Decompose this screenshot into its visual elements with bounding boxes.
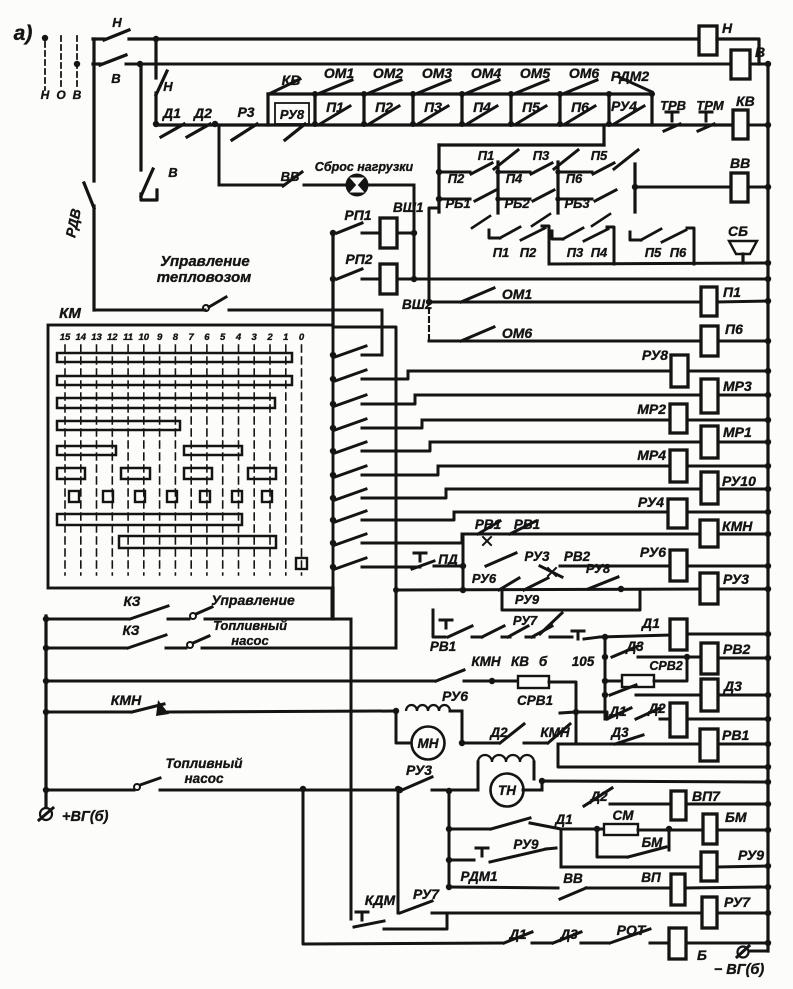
- svg-text:РУ9: РУ9: [738, 847, 764, 863]
- junction RP2: [330, 276, 336, 282]
- wire MR4 to bus: [687, 465, 768, 468]
- contact RU6 mn: [436, 670, 464, 681]
- contact P6 pair blade: [662, 230, 686, 242]
- contact D2 vp7: [584, 788, 612, 806]
- label 105: [572, 654, 595, 669]
- label D1 low: [608, 704, 626, 719]
- svg-text:ОМ1: ОМ1: [324, 65, 355, 81]
- wire vert561: [560, 829, 563, 867]
- wire KZ1 a: [46, 618, 128, 621]
- svg-text:РУ8: РУ8: [642, 347, 668, 363]
- contact P2: [471, 163, 492, 174]
- bus RP vertical: [331, 232, 334, 325]
- coil KMN: [700, 518, 753, 547]
- svg-text:ОМ2: ОМ2: [373, 65, 404, 81]
- contact П4: [467, 106, 497, 124]
- coil D1: [670, 619, 687, 650]
- junction MN left: [393, 708, 399, 714]
- wire RU3 loop: [502, 590, 640, 610]
- wire ladder row 5: [362, 442, 430, 451]
- junction B bus: [765, 940, 771, 946]
- controller column lines: [65, 345, 302, 575]
- wire vert398: [397, 789, 400, 913]
- contact KM5: [335, 442, 366, 453]
- wire RU9 to bus: [717, 866, 768, 867]
- contact P1 pair: [489, 230, 500, 238]
- contact П5: [516, 106, 546, 124]
- junction D2 bus: [765, 716, 771, 722]
- svg-text:БМ: БМ: [642, 835, 664, 850]
- contact KV low: [508, 626, 528, 637]
- svg-text:МР2: МР2: [637, 401, 666, 417]
- contact R3: [232, 124, 257, 140]
- label a): [14, 22, 33, 45]
- contact P1 diag: [494, 150, 518, 169]
- svg-text:Н: Н: [41, 88, 50, 102]
- label RU7 contact: [413, 886, 440, 902]
- label RDV: [62, 207, 84, 239]
- label P6: [566, 171, 583, 186]
- junction 767 bus: [765, 764, 771, 770]
- label R3: [237, 104, 254, 120]
- svg-text:РУ9: РУ9: [515, 592, 540, 607]
- label OM6: [502, 325, 533, 341]
- label П3: [424, 99, 442, 115]
- label P6 pair: [670, 245, 687, 260]
- label KMN left: [111, 692, 142, 708]
- contact KM3: [335, 395, 366, 406]
- wire SB row: [549, 263, 768, 264]
- bracket 2: [607, 227, 614, 264]
- bar block 1: [496, 162, 499, 213]
- junction 605 657: [602, 654, 608, 660]
- label KMN mn: [540, 725, 570, 740]
- coil P6: [701, 321, 743, 356]
- wire D1 829 a: [449, 828, 489, 831]
- contact ОМ6: [565, 80, 597, 93]
- junction KMN left: [43, 709, 49, 715]
- label ОМ6: [569, 65, 600, 81]
- wire H branch vertical: [154, 39, 157, 78]
- wire VSh1 to vert: [397, 232, 414, 235]
- svg-text:РУ7: РУ7: [413, 886, 440, 902]
- svg-text:МР1: МР1: [723, 424, 752, 440]
- wire KMN to bus: [718, 533, 768, 536]
- contact RU8 low: [588, 577, 618, 589]
- junction RU3 bus: [765, 586, 771, 592]
- junction rail RU3: [393, 587, 399, 593]
- label RU3 tn: [406, 762, 432, 778]
- wire block row2 seg3: [558, 198, 592, 201]
- contact RB3: [595, 190, 616, 201]
- wire VP row a: [449, 887, 558, 888]
- svg-text:10: 10: [139, 332, 150, 343]
- wire bottom a: [532, 942, 551, 945]
- contact ROT: [610, 929, 650, 943]
- svg-text:РУ9: РУ9: [513, 837, 539, 852]
- controller column numbers: [60, 332, 305, 343]
- junction ladder 4: [330, 425, 336, 431]
- contact ОМ4: [467, 80, 499, 93]
- svg-text:ВВ: ВВ: [730, 155, 750, 171]
- contact D2 mn: [500, 724, 524, 743]
- wire B branch hook: [141, 190, 157, 200]
- wire RU9 row a: [449, 859, 474, 862]
- label KM: [59, 305, 81, 322]
- wire block row2 seg2: [498, 198, 530, 201]
- contact P6: [593, 163, 614, 174]
- junction chain start: [153, 121, 159, 127]
- contact KZ1: [130, 606, 168, 619]
- svg-text:РУ3: РУ3: [524, 549, 550, 564]
- wire row A: [268, 92, 652, 95]
- svg-text:П5: П5: [522, 99, 540, 115]
- junction BM loop right: [666, 826, 672, 832]
- coil RV1: [700, 727, 749, 761]
- coil BM: [703, 809, 747, 844]
- junction RU6 bus: [765, 563, 771, 569]
- terminal -VG: [714, 946, 768, 978]
- label ROT: [617, 922, 647, 938]
- label П4: [473, 99, 491, 115]
- label KV low: [511, 654, 529, 669]
- junction D3 bus: [765, 692, 771, 698]
- svg-text:КЗ: КЗ: [123, 623, 140, 638]
- contact BM: [628, 847, 666, 857]
- wire KV riser: [266, 94, 269, 125]
- junction D1 bus: [765, 631, 771, 637]
- contact H branch: [156, 71, 167, 95]
- wire KDM hook: [384, 914, 447, 929]
- bracket 1: [542, 226, 549, 264]
- svg-text:12: 12: [107, 332, 118, 343]
- svg-text:П5: П5: [645, 245, 662, 260]
- svg-text:П2: П2: [375, 99, 393, 115]
- wire TN row c: [432, 789, 478, 792]
- motor TN: [491, 774, 524, 807]
- contact P1 pair blade: [500, 227, 520, 238]
- junction ladder 6: [330, 472, 336, 478]
- svg-text:РП1: РП1: [344, 207, 371, 223]
- contact П6: [565, 106, 595, 124]
- wire MR1 rung: [430, 441, 701, 444]
- wire RU7 to bus: [717, 912, 768, 915]
- contact PD thermal: [412, 553, 434, 569]
- svg-text:ВШ1: ВШ1: [393, 200, 423, 215]
- resistor SRV2: [622, 675, 654, 687]
- contact D3 bottom: [553, 932, 581, 943]
- wire RV2 rung: [638, 656, 701, 659]
- coil RU7: [702, 894, 751, 928]
- bar P4: [459, 91, 465, 127]
- contact b low: [532, 626, 552, 637]
- controller cam bars: [57, 353, 292, 548]
- contact П1: [320, 106, 350, 124]
- svg-text:5: 5: [220, 332, 226, 343]
- wire SM a: [597, 828, 604, 831]
- label TRV: [660, 98, 686, 113]
- wire vert 605: [604, 637, 607, 719]
- wire RU6 to bus: [687, 565, 768, 568]
- svg-text:Управление: Управление: [160, 253, 250, 270]
- bar P7: [606, 91, 612, 127]
- wire RV2 to bus: [718, 657, 768, 660]
- svg-text:ТРМ: ТРМ: [696, 98, 725, 113]
- bar P1: [312, 91, 318, 127]
- inductor TN: [478, 755, 534, 762]
- contact KZ2: [128, 635, 166, 648]
- wire SRV1 a: [464, 680, 518, 683]
- wire MN loop left: [396, 711, 411, 743]
- wire RU10 to bus: [718, 488, 768, 491]
- svg-text:14: 14: [76, 332, 87, 343]
- junction VSh2 right: [411, 276, 417, 282]
- svg-text:Д1: Д1: [554, 812, 572, 827]
- svg-text:насос: насос: [231, 633, 269, 648]
- label D2: [193, 105, 212, 121]
- label P1 pair: [493, 245, 510, 260]
- contact KDM blade: [354, 921, 384, 927]
- svg-text:8: 8: [173, 332, 179, 343]
- contact KM4: [335, 419, 366, 430]
- coil MR4: [637, 447, 687, 482]
- svg-text:П4: П4: [506, 171, 523, 186]
- bar P5: [508, 91, 514, 127]
- svg-text:КМ: КМ: [59, 305, 81, 322]
- wire ladder row 4: [362, 420, 422, 428]
- contact П3: [418, 106, 448, 124]
- junction KZ1: [43, 616, 49, 622]
- contact RU4 top: [614, 106, 644, 124]
- contact B branch: [141, 169, 153, 196]
- coil RU9: [701, 847, 764, 881]
- junction ladder 1: [330, 352, 336, 358]
- svg-text:МР3: МР3: [723, 378, 752, 394]
- coil KV: [733, 93, 755, 139]
- junction VV bus: [765, 184, 771, 190]
- contact KM9: [335, 534, 366, 545]
- bar RDM2: [649, 91, 655, 125]
- wire BB vertical: [218, 125, 221, 185]
- contact RDV: [84, 183, 94, 208]
- svg-text:РВ2: РВ2: [723, 641, 750, 657]
- wire D1 rung a: [472, 636, 482, 639]
- junction RV1 bus: [765, 741, 771, 747]
- wire block left edge: [437, 145, 440, 212]
- label KDM: [365, 892, 396, 908]
- wire D1 rung a2: [502, 636, 510, 639]
- label RP1: [344, 207, 371, 223]
- wire KZ1 riser: [331, 588, 334, 619]
- wire D2 rung: [660, 718, 670, 721]
- svg-text:БМ: БМ: [725, 809, 747, 825]
- label RV2: [564, 549, 591, 564]
- label SRV2: [649, 659, 682, 673]
- svg-text:Р3: Р3: [237, 104, 254, 120]
- svg-text:СРВ1: СРВ1: [517, 693, 553, 708]
- svg-text:ОМ1: ОМ1: [502, 286, 533, 302]
- svg-text:МН: МН: [418, 736, 439, 751]
- label RB2: [504, 196, 530, 211]
- junction 681: [43, 678, 49, 684]
- label BM contact: [642, 835, 664, 850]
- label P4 pair: [591, 245, 608, 260]
- svg-text:РУ3: РУ3: [723, 571, 749, 587]
- svg-text:1: 1: [283, 332, 288, 343]
- contact RU3 tn: [402, 777, 432, 790]
- wire H coil to bus: [717, 39, 759, 64]
- lamp signal: [346, 174, 369, 197]
- junction KZ2: [43, 645, 49, 651]
- wire KMN rung: [462, 533, 700, 536]
- label upravlenie teplovozom line1: [160, 253, 250, 270]
- svg-text:РУ7: РУ7: [513, 613, 538, 628]
- contact P5 pair: [630, 232, 641, 240]
- wire bottom c: [650, 942, 669, 945]
- svg-text:РУ10: РУ10: [722, 473, 756, 489]
- label D1 coil: [641, 615, 660, 631]
- wire KZ1 b: [168, 618, 189, 621]
- junction RU3 vert: [460, 587, 466, 593]
- label RB1: [445, 196, 470, 211]
- junction P6 bus: [765, 338, 771, 344]
- junction RU9 bus: [765, 863, 771, 869]
- svg-text:П3: П3: [533, 148, 550, 163]
- coil VP: [671, 874, 685, 905]
- label OM1: [502, 286, 533, 302]
- wire block top: [439, 143, 604, 146]
- contact KM8: [335, 511, 366, 522]
- wire BM to bus: [717, 829, 768, 832]
- label KZ1: [124, 594, 141, 609]
- wire KMN row a: [46, 711, 130, 714]
- wire VP to bus: [685, 887, 768, 888]
- label H branch: [163, 79, 173, 94]
- svg-text:РУ3: РУ3: [406, 762, 432, 778]
- contact D1 829: [491, 818, 530, 829]
- contact ОМ1: [320, 80, 352, 93]
- junction VSh1 right: [411, 230, 417, 236]
- wire D2 rung feed: [577, 712, 607, 719]
- contact D2 low: [636, 708, 660, 719]
- wire KZ2 c: [202, 647, 396, 650]
- wire MN chain c: [558, 743, 576, 746]
- svg-text:КМН: КМН: [722, 518, 753, 534]
- svg-text:КДМ: КДМ: [365, 892, 396, 908]
- coil RU10: [701, 472, 756, 504]
- wire RP1: [362, 232, 380, 235]
- label П5: [522, 99, 540, 115]
- svg-text:РУ6: РУ6: [472, 571, 497, 586]
- wire SRV1 b: [549, 682, 576, 744]
- contact RB1 tail: [472, 216, 490, 228]
- label sbros nagruzki: [315, 160, 414, 174]
- wire BM loop rightv: [668, 829, 671, 850]
- label VV low: [563, 871, 583, 886]
- label P4: [506, 171, 523, 186]
- junction 605 695: [602, 692, 608, 698]
- svg-text:СРВ2: СРВ2: [649, 659, 682, 673]
- junction VP bus: [765, 884, 771, 890]
- junction ladder 10: [330, 564, 336, 570]
- label SRV1: [517, 693, 553, 708]
- svg-text:ОМ4: ОМ4: [471, 65, 502, 81]
- wire TN loop right: [533, 762, 536, 779]
- svg-text:В: В: [755, 44, 765, 60]
- wire lamp vertical: [413, 185, 416, 279]
- label VP: [641, 870, 661, 885]
- svg-text:В: В: [168, 165, 177, 180]
- contact 105 thermal: [556, 631, 600, 639]
- wire RU8 to bus: [688, 370, 768, 373]
- svg-text:Д2: Д2: [589, 789, 608, 804]
- svg-text:П6: П6: [571, 99, 589, 115]
- contact BB: [283, 172, 302, 186]
- wire MR3 to bus: [718, 394, 768, 397]
- bar block right: [633, 164, 636, 212]
- wire KMN row b: [168, 711, 396, 712]
- controller KM box: [48, 325, 333, 588]
- contact RV1 star: [478, 521, 500, 545]
- label ОМ5: [520, 65, 551, 81]
- coil RU4: [638, 494, 687, 528]
- wire OM6 rung: [429, 340, 701, 343]
- wire SRV2 left: [605, 680, 622, 683]
- junction PD: [460, 563, 466, 569]
- junction 576 712: [573, 709, 579, 715]
- label П1: [326, 99, 344, 115]
- label RDM1: [461, 869, 498, 884]
- label П6: [571, 99, 589, 115]
- label RDM2: [611, 68, 650, 84]
- svg-text:3: 3: [252, 332, 258, 343]
- svg-text:Д2: Д2: [489, 725, 508, 740]
- label B branch: [168, 165, 177, 180]
- wire P1 to bus: [717, 301, 768, 302]
- label RV1 first: [475, 517, 501, 532]
- junction OM1 start: [426, 299, 432, 305]
- junction block left r1: [436, 169, 442, 175]
- svg-text:РВ1: РВ1: [514, 517, 540, 532]
- wire block riser: [602, 125, 605, 145]
- svg-text:О: О: [56, 88, 66, 102]
- contact OM1: [461, 288, 494, 302]
- svg-text:П4: П4: [591, 245, 608, 260]
- contact P3 pair blade: [563, 228, 583, 239]
- svg-text:П4: П4: [473, 99, 491, 115]
- wire ladder row 7: [362, 489, 446, 498]
- contact RV1 second: [510, 521, 536, 534]
- svg-text:В: В: [73, 88, 82, 102]
- label D1: [162, 105, 181, 121]
- wire PD row left: [413, 566, 420, 569]
- wire D3 rung: [636, 694, 701, 697]
- label BB: [281, 169, 300, 184]
- svg-text:РБ2: РБ2: [504, 196, 530, 211]
- svg-text:МР4: МР4: [637, 447, 666, 463]
- wire RU9 coil rung: [561, 866, 701, 869]
- contact TRM: [698, 112, 714, 131]
- svg-text:тепловозом: тепловозом: [157, 269, 252, 286]
- svg-text:Н: Н: [722, 20, 733, 36]
- wire B branch vertical: [139, 64, 142, 170]
- junction RV2 bus: [765, 655, 771, 661]
- contact KM10: [335, 558, 366, 569]
- wire D3 to bus: [718, 694, 768, 697]
- junction block left r2: [436, 196, 442, 202]
- svg-text:ОМ5: ОМ5: [520, 65, 551, 81]
- contact TRV: [664, 112, 680, 131]
